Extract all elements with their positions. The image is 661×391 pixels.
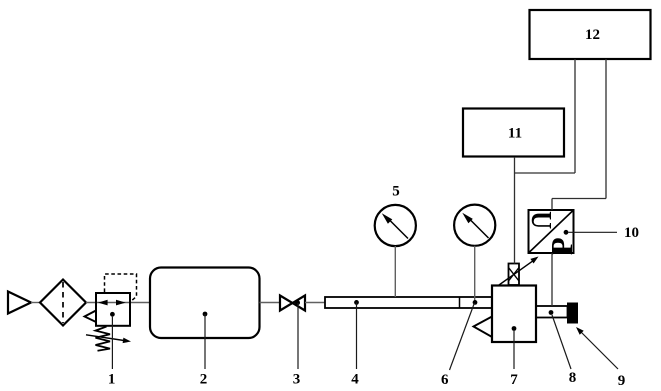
node dot on stem 8 (549, 310, 554, 315)
regulator exhaust triangle (85, 311, 97, 323)
measuring chamber 7 (box) (492, 286, 536, 343)
wire tank to valve 3 (260, 302, 281, 304)
svg-text:2: 2 (200, 372, 208, 388)
label 4 (351, 372, 359, 388)
restrictor with X on top of box 7 (509, 264, 520, 286)
svg-text:4: 4 (351, 372, 359, 388)
air inlet triangle (8, 292, 31, 314)
svg-text:10: 10 (624, 225, 639, 241)
label 10 (624, 225, 639, 241)
regulator adjusting spring (96, 327, 111, 351)
label 1 (108, 372, 116, 388)
svg-text:3: 3 (293, 372, 301, 388)
computer box 12 (530, 10, 651, 59)
wire box 12 right vertical (605, 59, 607, 199)
wire filter to regulator and through regulator to tank (86, 302, 150, 304)
outlet stem 8 (536, 306, 568, 318)
wire transducer 10 bottom to stem 8 (551, 253, 553, 306)
label 11 (508, 126, 522, 142)
baffle 9 (black rectangle) (567, 303, 578, 324)
label 6 (441, 372, 449, 388)
label 8 (569, 370, 577, 386)
svg-text:7: 7 (510, 372, 518, 388)
P/U transducer 10 (526, 210, 580, 255)
node dot on regulator 1 (110, 312, 115, 317)
leader line label 2 (204, 314, 206, 369)
svg-text:U: U (526, 211, 558, 229)
label 9 (618, 373, 626, 389)
wire inlet to filter (31, 302, 40, 304)
leader line label 8 (552, 315, 571, 369)
wire branch 11/12 horizontal (515, 172, 576, 174)
pressure gauge above section 6 (454, 205, 495, 246)
label 3 (293, 372, 301, 388)
node dot on transducer 10 (564, 230, 569, 235)
pressure regulator 1 (box) (96, 293, 130, 326)
pressure gauge 5 (375, 205, 416, 246)
wire horizontal to transducer 10 (552, 198, 606, 200)
node dot on tank 2 (203, 312, 208, 317)
nozzle triangle on box 7 (474, 317, 493, 338)
leader arrow label 9 (576, 327, 618, 369)
node dot in box 7 (512, 326, 517, 331)
pipe 4 (long thin rectangle) (325, 297, 492, 308)
svg-text:P: P (545, 237, 579, 255)
svg-text:9: 9 (618, 373, 626, 389)
wire down into transducer 10 top (551, 199, 553, 211)
air tank 2 (rounded rect) (150, 268, 260, 339)
regulator adjustment arrow (86, 335, 131, 343)
node dot on pipe 4 (354, 300, 359, 305)
svg-text:8: 8 (569, 370, 577, 386)
leader line label 1 (111, 317, 113, 369)
shut-off valve 3 (bowtie) (280, 296, 305, 311)
regulator pilot dashed loop (105, 274, 137, 302)
adjustment arrow through restrictor (499, 257, 539, 286)
svg-text:11: 11 (508, 126, 522, 142)
leader line label 10 (568, 231, 617, 233)
wire valve 3 to pipe 4 (305, 302, 325, 304)
wire box 12 left vertical (574, 59, 576, 173)
controller box 11 (463, 109, 564, 157)
leader line label 7 (513, 331, 515, 369)
node dot on valve 3 (295, 300, 300, 305)
label 7 (510, 372, 518, 388)
leader line label 6 (450, 303, 475, 370)
leader line label 4 (356, 302, 358, 369)
leader line label 3 (297, 303, 299, 369)
wire box 11 down to restrictor (514, 157, 516, 264)
svg-text:1: 1 (108, 372, 116, 388)
filter (diamond) (40, 280, 86, 326)
label 5 (392, 184, 400, 200)
gauge 6 stem wire (474, 246, 476, 303)
svg-text:12: 12 (585, 27, 600, 43)
label 2 (200, 372, 208, 388)
label 12 (585, 27, 600, 43)
gauge 5 stem wire (394, 246, 396, 297)
node dot 6 on pipe (473, 300, 478, 305)
svg-text:6: 6 (441, 372, 449, 388)
svg-text:5: 5 (392, 184, 400, 200)
